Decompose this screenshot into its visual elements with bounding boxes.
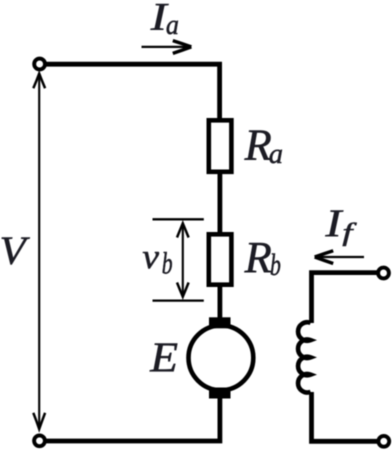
svg-text:v: v	[142, 237, 159, 275]
resistor Rb	[209, 234, 232, 284]
resistor Ra	[209, 120, 232, 172]
vb measurement: top bar	[153, 218, 204, 220]
current arrow If (points left)	[318, 256, 364, 258]
motor brush bottom	[209, 388, 231, 399]
wire: Ra bottom to Rb top	[217, 173, 222, 233]
svg-text:a: a	[166, 8, 179, 41]
value label Ra	[244, 121, 272, 170]
annotation arrow V (double headed)	[33, 74, 45, 429]
wire: top horizontal + right vertical down to Ra	[43, 64, 220, 118]
vb double arrow	[177, 223, 189, 296]
wire: Rb bottom to motor top brush	[217, 286, 222, 319]
field circuit: coil bottom to bottom wire right	[312, 392, 379, 441]
label V	[0, 229, 30, 274]
motor E (armature circle)	[189, 325, 254, 390]
svg-text:f: f	[342, 218, 357, 246]
terminal bottom-left	[34, 435, 45, 446]
value label Rb	[244, 233, 272, 282]
wire: motor bottom to bottom rail and left to terminal	[43, 397, 220, 441]
svg-text:R: R	[244, 121, 272, 170]
svg-text:E: E	[149, 334, 178, 381]
svg-text:V: V	[0, 229, 30, 274]
svg-text:b: b	[162, 246, 173, 281]
label If	[324, 202, 344, 245]
terminal field top-right	[378, 268, 389, 279]
svg-text:I: I	[324, 202, 344, 245]
label Ia	[150, 0, 170, 38]
vb measurement: bottom bar	[153, 299, 204, 301]
inductor Lf (field winding, 4 bumps)	[298, 322, 311, 392]
svg-text:a: a	[269, 139, 283, 170]
terminal top-left	[34, 59, 45, 70]
field circuit: top wire + down to coil	[312, 273, 379, 323]
label E	[149, 334, 178, 381]
current arrow Ia	[142, 46, 189, 48]
svg-text:R: R	[244, 233, 272, 282]
terminal field bottom-right	[378, 436, 389, 447]
label vb	[142, 237, 159, 275]
svg-text:b: b	[270, 247, 281, 282]
motor brush top	[209, 317, 231, 328]
